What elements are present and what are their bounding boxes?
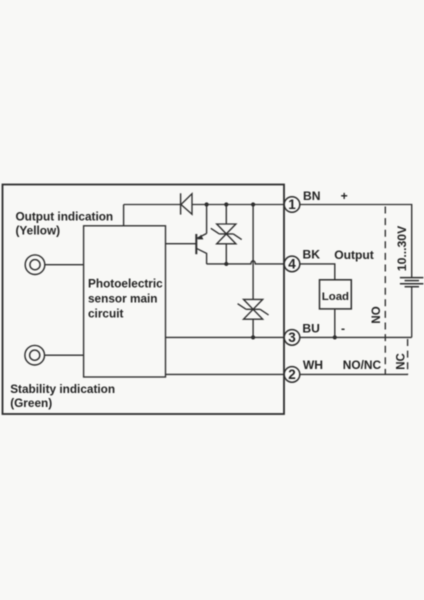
- svg-text:Output: Output: [334, 248, 374, 262]
- wire: BN rail left segment: [124, 204, 180, 206]
- wire: inner box top to BN rail: [123, 205, 125, 226]
- wire: LED1 to main circuit: [45, 264, 84, 266]
- svg-text:Load: Load: [322, 291, 349, 303]
- wire: BU rail from main circuit to battery -: [166, 336, 412, 338]
- TVS diode ZD1 (output clamp): [211, 205, 242, 264]
- wire: WH rail: [166, 373, 409, 375]
- svg-text:3: 3: [288, 330, 296, 345]
- LED indicator (yellow): [25, 255, 45, 275]
- node: TVS2 junction on BN: [251, 202, 255, 206]
- wire: LED2 to main circuit: [45, 354, 84, 356]
- svg-text:Output indication: Output indication: [16, 210, 114, 224]
- load box: [320, 280, 352, 309]
- svg-text:NC: NC: [396, 353, 408, 370]
- svg-text:BU: BU: [302, 322, 319, 336]
- transistor Q1 (PNP output): [196, 205, 206, 264]
- sensor main circuit block U1: [84, 226, 166, 377]
- svg-text:(Green): (Green): [10, 396, 52, 410]
- dashed wire: NC option (WH to -): [407, 339, 409, 374]
- terminal 3 BU: [284, 330, 300, 346]
- svg-text:BN: BN: [303, 189, 320, 203]
- dashed wire: NO option (WH to +): [384, 207, 386, 375]
- wire: BK to load: [300, 264, 335, 280]
- node: emitter junction on BN: [205, 202, 209, 206]
- svg-text:NO: NO: [371, 306, 383, 323]
- wire: base of Q1 from main circuit: [166, 243, 197, 245]
- svg-text:BK: BK: [303, 248, 321, 262]
- node: load on BU: [333, 335, 337, 339]
- wire: BN rail to battery +: [192, 205, 412, 278]
- svg-text:1: 1: [288, 197, 296, 212]
- LED indicator (green): [25, 345, 45, 365]
- svg-text:2: 2: [288, 367, 296, 382]
- svg-text:NO/NC: NO/NC: [343, 358, 382, 372]
- svg-text:+: +: [341, 189, 348, 203]
- wire: collector/BK line with hop over TVS2 wire: [207, 261, 284, 264]
- svg-text:circuit: circuit: [88, 307, 123, 321]
- terminal 4 BK: [284, 256, 300, 272]
- svg-text:(Yellow): (Yellow): [16, 224, 61, 238]
- terminal 2 WH: [284, 367, 300, 383]
- svg-text:10...30V: 10...30V: [395, 225, 409, 271]
- TVS diode ZD2 (supply clamp): [238, 205, 269, 338]
- terminal 1 BN: [284, 197, 300, 213]
- svg-text:Stability indication: Stability indication: [10, 382, 115, 396]
- battery BT1 10...30V: [400, 278, 424, 338]
- svg-text:Photoelectric: Photoelectric: [88, 276, 163, 290]
- svg-text:4: 4: [288, 257, 296, 272]
- diode D1 (reverse polarity protection): [181, 193, 192, 214]
- wire: load to BU: [334, 309, 336, 338]
- node: TVS2 on BU: [251, 335, 255, 339]
- svg-text:sensor main: sensor main: [88, 292, 158, 306]
- svg-text:WH: WH: [303, 358, 323, 372]
- svg-text:-: -: [341, 322, 345, 336]
- sensor housing outer box: [3, 185, 285, 415]
- node: TVS1 to collector line: [224, 262, 228, 266]
- node: TVS1 junction on BN: [224, 202, 228, 206]
